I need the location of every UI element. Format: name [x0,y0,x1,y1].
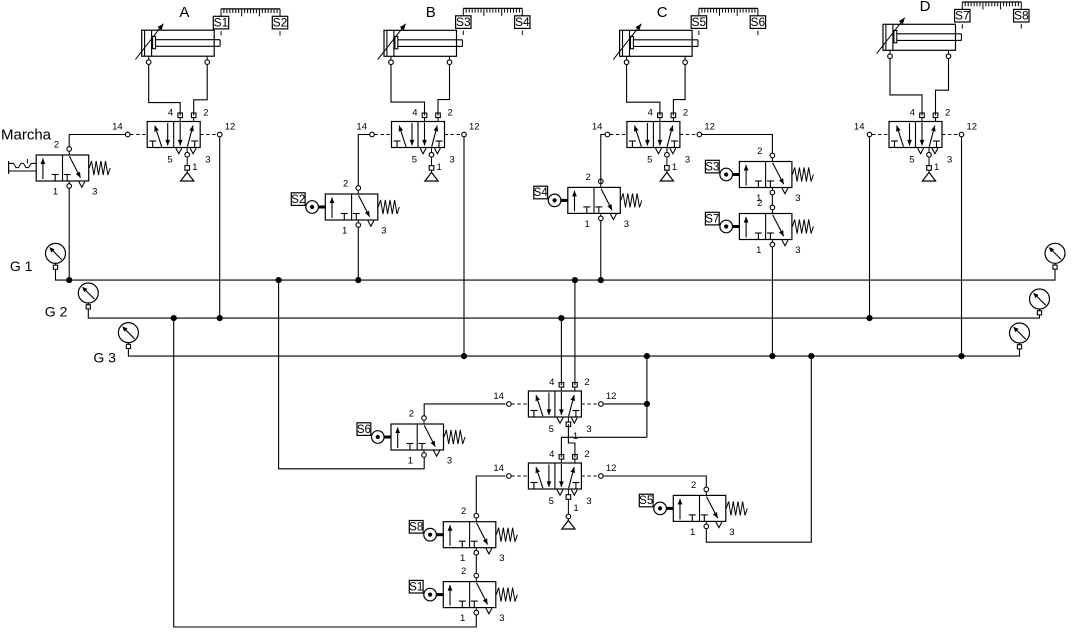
svg-text:4: 4 [648,108,653,119]
valve 3V1 pilot port 12 connector [680,132,702,137]
svg-text:G 3: G 3 [93,350,116,366]
valve S3 valve port 2 connector [770,153,775,161]
valve 4V1 port 4 stub [920,113,925,122]
svg-text:S5: S5 [692,15,707,29]
svg-text:S3: S3 [456,15,471,29]
label box S6 [357,423,371,436]
wire S5 valve port 1 to line G3 [706,356,811,542]
label box S8 [409,521,423,534]
svg-text:2: 2 [461,566,466,577]
valve V6 port 4 stub [559,455,564,464]
wire pressure line G3 [128,349,1019,356]
cylinder B left port [389,56,394,64]
valve Marcha 3/2 body [36,155,88,187]
valve S1 valve roller actuator [424,588,443,601]
svg-text:3: 3 [947,155,952,166]
svg-text:3: 3 [586,496,591,507]
svg-text:14: 14 [493,463,504,474]
svg-text:3: 3 [447,456,452,467]
valve V6 port 2 stub [573,455,578,464]
gauge G3 right [1010,323,1030,349]
wire cylinder C right port to valve 3V1 port 2 [673,64,685,115]
valve S4 valve return spring [621,193,642,207]
valve S3 valve 3/2 body [739,162,792,194]
valve S8 valve roller actuator [424,528,443,541]
wire line G1 down to valve V5 port 2 [574,280,576,385]
valve V5 port labels [493,377,616,435]
svg-text:1: 1 [460,613,465,624]
valve 1V1 port 4 stub [178,113,183,122]
svg-text:S5: S5 [639,495,653,507]
wire valve 1V1 pilot 12 down to line G2 [219,137,221,318]
valve S1 valve return spring [496,588,517,602]
junction G1 x V5 port 2 feed [572,277,578,283]
wire S2 valve port 2 to valve 2V1 pilot 14 [358,135,369,186]
svg-text:12: 12 [704,122,715,133]
valve S3 valve port 1 connector [770,188,775,195]
valve S2 valve port 1 connector [356,220,361,227]
valve 4V1 port 2 stub [933,113,938,122]
label box S4 [534,186,549,199]
position sensor S3 [456,15,471,35]
cylinder B label [426,4,436,21]
junction G3 x S7 supply [769,353,775,359]
valve V5 (group selector upper) 5/2 double-pilot body [528,391,581,423]
label G 2 [45,304,68,320]
valve V6 port labels [493,449,616,507]
wire cylinder B left port to valve 2V1 port 4 [391,64,425,115]
compressed air supply at valve 1V1 port 1 [181,148,198,182]
valve S4 valve 3/2 body [568,187,621,219]
valve S7 valve port 1 connector [770,240,775,247]
valve S6 valve return spring [444,430,465,444]
valve S4 valve port 1 connector [599,213,604,220]
svg-text:S8: S8 [409,522,423,534]
cylinder C label [657,4,668,21]
svg-text:2: 2 [343,179,348,190]
compressed air supply at valve V6 port 1 [562,489,579,529]
svg-text:5: 5 [412,155,417,166]
cylinder D right port [946,50,951,58]
position sensor S2 [272,16,287,36]
svg-text:2: 2 [584,377,589,388]
wire line G2 down to valve V5 port 4 [560,318,562,385]
valve S5 valve return spring [726,501,747,515]
valve S2 valve port 2 connector [356,186,361,194]
svg-text:5: 5 [549,424,554,435]
cylinder D left port [888,50,893,58]
svg-text:3: 3 [450,155,455,166]
gauge G1 left [46,243,66,269]
svg-text:Marcha: Marcha [1,126,52,143]
valve S6 valve port 1 connector [422,450,427,457]
valve Marcha port 2 connector [67,147,72,155]
junction G3 x valve 4V1 pilot 12 [958,353,964,359]
svg-text:4: 4 [168,108,173,119]
svg-text:1: 1 [573,431,578,442]
valve S3 valve return spring [792,168,813,182]
measuring scale for cylinder B [463,8,522,15]
svg-text:2: 2 [409,409,414,420]
svg-text:4: 4 [549,377,554,388]
position sensor S5 [691,15,706,35]
wire Marcha port 2 to valve 1V1 pilot 14 [69,135,125,147]
compressed air supply at valve 4V1 port 1 [922,148,939,182]
svg-text:3: 3 [624,219,629,230]
svg-text:1: 1 [672,162,677,173]
valve V6 (group selector lower) 5/2 double-pilot body [528,463,581,495]
valve S3 valve roller actuator [720,168,740,181]
valve 1V1 pilot port 14 connector [125,132,147,137]
svg-text:1: 1 [690,527,695,538]
junction G1 x S6 feed [276,277,282,283]
svg-text:1: 1 [408,456,413,467]
gauge G2 left [78,283,98,309]
valve S6 valve port labels [408,409,452,467]
wire valve V5 pilot 12 stub [603,403,644,405]
wire cylinder D left port to valve 4V1 port 4 [890,58,922,115]
svg-text:12: 12 [967,122,978,133]
svg-text:4: 4 [549,449,554,460]
position sensor S6 [750,15,765,35]
label box S3 [705,160,719,173]
svg-text:S2: S2 [291,194,305,206]
svg-text:3: 3 [205,155,210,166]
valve S6 valve roller actuator [372,431,392,444]
svg-text:S8: S8 [1014,9,1029,23]
svg-text:2: 2 [54,140,59,151]
wire Marcha port 1 down to line G1 [68,188,70,280]
svg-text:1: 1 [53,187,58,198]
svg-text:S3: S3 [705,161,719,173]
cylinder A left port [146,56,151,64]
svg-text:G 2: G 2 [45,304,68,320]
valve 4V1 (cylinder D) 5/2 double-pilot body [889,122,942,154]
cylinder A (double-acting, adjustable cushioning) [135,24,220,60]
valve V5 pilot port 14 connector [507,402,529,407]
svg-text:1: 1 [573,503,578,514]
valve 3V1 pilot port 14 connector [605,132,627,137]
valve S5 valve roller actuator [654,502,674,515]
valve 4V1 pilot port 14 connector [867,132,889,137]
valve S7 valve port 2 connector [770,205,775,213]
svg-text:4: 4 [910,108,915,119]
svg-text:2: 2 [683,108,688,119]
valve V5 port 2 stub [573,383,578,392]
wire S8 valve port 2 to valve V6 pilot 14 [476,476,505,513]
valve 3V1 port 2 stub [671,113,676,122]
compressed air supply at valve 2V1 port 1 [425,148,442,182]
label box S2 [291,193,305,206]
svg-text:S2: S2 [273,16,288,30]
cylinder B (double-acting, adjustable cushioning) [378,24,463,60]
valve S4 valve port 2 connector [599,179,604,187]
svg-text:2: 2 [945,108,950,119]
valve S1 valve port 2 connector [474,573,479,581]
valve 1V1 port labels [112,108,235,166]
valve 4V1 port labels [854,108,977,166]
valve S5 valve 3/2 body [673,495,726,527]
svg-text:1: 1 [585,219,590,230]
valve 1V1 port 2 stub [191,113,196,122]
svg-text:5: 5 [647,155,652,166]
valve V6 pilot port 12 connector [581,474,603,479]
valve 3V1 port 4 stub [658,113,663,122]
svg-text:14: 14 [112,122,123,133]
cylinder C right port [683,56,688,64]
svg-text:12: 12 [469,122,480,133]
cylinder A right port [205,56,210,64]
wire cylinder A left port to valve 1V1 port 4 [149,64,181,115]
valve S7 valve 3/2 body [739,214,792,246]
cylinder D (double-acting, adjustable cushioning) [877,18,962,54]
svg-text:2: 2 [757,198,762,209]
wire valve 4V1 pilot 14 down to line G2 [869,137,871,318]
valve S8 valve 3/2 body [443,522,496,554]
wire pressure line G1 [56,270,1056,280]
junction G2 x valve 4V1 pilot 14 [866,315,872,321]
wire S4 valve port 1 down to line G1 [600,221,602,280]
wire S4 valve port 2 to valve 3V1 pilot 14 [601,135,605,184]
valve 3V1 (cylinder C) 5/2 double-pilot body [627,122,680,154]
svg-text:2: 2 [203,108,208,119]
cylinder B right port [447,56,452,64]
valve S1 valve port labels [460,566,504,624]
svg-text:12: 12 [225,122,236,133]
valve S8 valve port 2 connector [474,513,479,521]
svg-text:S1: S1 [409,581,423,593]
valve S2 valve 3/2 body [325,194,378,226]
valve 2V1 (cylinder B) 5/2 double-pilot body [392,122,445,154]
valve S2 valve return spring [378,200,399,214]
svg-text:S6: S6 [357,424,371,436]
svg-text:3: 3 [499,613,504,624]
svg-text:D: D [920,0,931,15]
svg-text:3: 3 [685,155,690,166]
valve 3V1 port labels [592,108,715,166]
measuring scale for cylinder A [221,9,280,16]
compressed air supply at valve 3V1 port 1 [660,148,677,182]
svg-text:5: 5 [167,155,172,166]
wire valve 3V1 pilot 12 to S3 valve port 2 [702,135,773,154]
svg-text:3: 3 [795,193,800,204]
svg-text:S1: S1 [214,16,229,30]
valve S7 valve port labels [756,198,800,256]
valve S6 valve 3/2 body [391,424,444,456]
wire cylinder D right port to valve 4V1 port 2 [936,58,949,115]
svg-text:12: 12 [606,463,617,474]
cylinder D label [920,0,931,15]
valve Marcha port 1 connector [67,181,72,188]
label box S1 [409,580,423,593]
position sensor S7 [955,9,970,29]
label G 1 [10,258,33,274]
wire S7 valve port 1 down to line G3 [771,247,773,356]
valve 2V1 port 2 stub [436,113,441,122]
label box S7 [705,212,719,225]
svg-text:5: 5 [549,496,554,507]
label G 3 [93,350,116,366]
svg-text:14: 14 [592,122,603,133]
valve S7 valve roller actuator [720,220,740,233]
svg-text:S7: S7 [705,213,719,225]
wire S1 valve port 1 to line G2 [174,318,477,627]
svg-text:S4: S4 [515,15,530,29]
svg-text:S4: S4 [534,187,549,199]
cylinder C (double-acting, adjustable cushioning) [613,24,698,60]
svg-text:3: 3 [729,527,734,538]
wire S3 valve port 1 to S7 valve port 2 [771,195,773,205]
valve S2 valve port labels [342,179,386,237]
valve 2V1 pilot port 12 connector [445,132,467,137]
svg-text:2: 2 [691,480,696,491]
cylinder C left port [624,56,629,64]
svg-text:A: A [179,4,189,21]
junction G3 x V5/V6 feed [644,353,650,359]
measuring scale for cylinder C [699,8,758,15]
svg-text:14: 14 [854,122,865,133]
svg-text:2: 2 [586,172,591,183]
svg-text:B: B [426,4,436,21]
V5 port 1 stub [566,417,578,442]
svg-text:2: 2 [757,146,762,157]
junction G1 x S2 supply [355,277,361,283]
svg-text:1: 1 [460,553,465,564]
valve S7 valve return spring [792,220,813,234]
junction G3 x valve 2V1 pilot 12 [461,353,467,359]
valve 2V1 pilot port 14 connector [370,132,392,137]
svg-text:S6: S6 [751,15,766,29]
wire S2 valve port 1 down to line G1 [357,227,359,280]
svg-text:1: 1 [192,162,197,173]
valve S8 valve port labels [460,506,504,564]
Marcha detent switch actuator [9,159,37,174]
valve S4 valve roller actuator [548,194,568,207]
valve Marcha port labels [53,140,97,198]
valve S1 valve 3/2 body [443,582,496,614]
gauge G1 right [1045,243,1065,269]
valve S5 valve port 2 connector [704,487,709,495]
valve S8 valve port 1 connector [474,548,479,555]
wire line G3 down to valve V5 pilot 12 and V6 port 4 [646,356,648,437]
junction G2 x V5 port 4 feed [558,315,564,321]
svg-text:3: 3 [586,424,591,435]
gauge G2 right [1030,289,1050,315]
svg-text:1: 1 [342,226,347,237]
measuring scale for cylinder D [962,2,1021,9]
svg-text:1: 1 [934,162,939,173]
valve S4 valve port labels [585,172,629,230]
wire S6 valve port 2 to valve V5 pilot 14 [424,404,505,416]
valve 1V1 (cylinder A) 5/2 double-pilot body [147,122,200,154]
wire S8 valve port 1 to S1 valve port 2 [475,555,477,573]
valve V5 port 4 stub [559,383,564,392]
valve V6 pilot port 14 connector [507,474,529,479]
svg-text:5: 5 [909,155,914,166]
svg-text:3: 3 [381,226,386,237]
junction G1 x S4 supply [598,277,604,283]
junction G2 x valve 1V1 pilot 12 [217,315,223,321]
wire line G1 to S6 valve port 1 [279,280,425,469]
valve V5 pilot port 12 connector [581,402,603,407]
valve 2V1 port 4 stub [422,113,427,122]
wire valve V5 port 1 to valve V6 port 2 [568,424,575,457]
wire valve V6 pilot 12 to S5 valve port 2 [603,476,706,487]
gauge G3 left [118,323,138,349]
svg-text:S7: S7 [955,9,970,23]
valve 2V1 port labels [356,108,479,166]
position sensor S1 [213,16,228,36]
wire cylinder B right port to valve 2V1 port 2 [438,64,450,115]
svg-text:G 1: G 1 [10,258,33,274]
valve S5 valve port 1 connector [704,521,709,528]
valve 4V1 pilot port 12 connector [942,132,964,137]
junction G1 x Marcha supply [66,277,72,283]
valve S3 valve port labels [756,146,800,204]
junction G2 x S1 feed [171,315,177,321]
wire pressure line G2 [88,310,1039,319]
valve S6 valve port 2 connector [422,416,427,424]
svg-text:C: C [657,4,668,21]
svg-text:3: 3 [499,553,504,564]
valve S2 valve roller actuator [306,201,325,214]
wire junction to valve V6 port 4 [561,437,647,457]
svg-text:3: 3 [795,245,800,256]
label box S5 [639,494,653,507]
svg-text:4: 4 [412,108,417,119]
valve 1V1 pilot port 12 connector [200,132,222,137]
valve S5 valve port labels [690,480,734,538]
svg-text:3: 3 [92,187,97,198]
svg-text:2: 2 [448,108,453,119]
valve Marcha return spring [89,161,110,175]
svg-text:1: 1 [756,245,761,256]
svg-text:1: 1 [437,162,442,173]
wire cylinder C left port to valve 3V1 port 4 [627,64,660,115]
svg-text:2: 2 [461,506,466,517]
wire cylinder A right port to valve 1V1 port 2 [194,64,208,115]
junction G3 x S5 supply [808,353,814,359]
position sensor S4 [515,15,530,35]
svg-text:14: 14 [356,122,367,133]
svg-text:12: 12 [606,391,617,402]
junction V5 pilot 12 tap [644,401,650,407]
svg-text:14: 14 [493,391,504,402]
valve S1 valve port 1 connector [474,608,479,615]
cylinder A label [179,4,189,21]
wire valve 4V1 pilot 12 down to line G3 [961,137,963,356]
wire valve 2V1 pilot 12 down to line G3 [463,137,465,356]
svg-text:2: 2 [584,449,589,460]
valve S8 valve return spring [496,528,517,542]
label Marcha [1,126,52,143]
position sensor S8 [1014,9,1029,29]
